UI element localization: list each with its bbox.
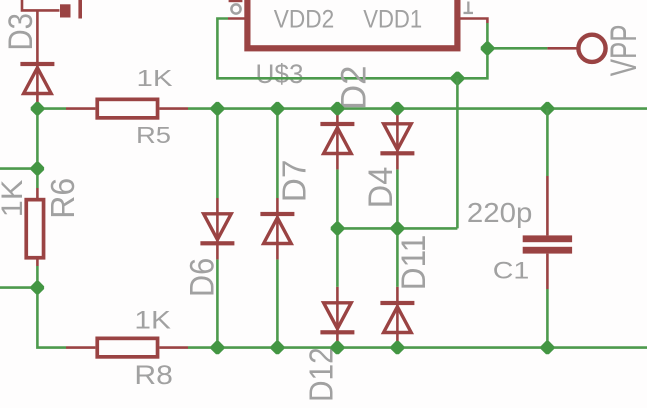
pin 8 red end cap (cut at top edge) [229,0,243,2]
svg-text:VDD2: VDD2 [274,6,335,34]
diode D4 (cathode down) [380,124,414,156]
resistor R5 right pin [159,107,188,110]
svg-text:D6: D6 [183,258,221,297]
wire riser x=457.4 [456,78,459,228]
svg-text:D11: D11 [395,235,433,291]
resistor R8 right pin [159,346,188,349]
junction D4/mid wire [391,222,404,235]
junction rail1/D4 [391,102,404,115]
diode D6 pin line [216,198,219,259]
svg-text:VPP: VPP [603,24,644,76]
junction rail2/D6 [211,341,224,354]
diode D4 pin line [396,109,399,170]
capacitor C1 plates [523,235,572,253]
wire pin8 net vertical+horizontal [217,19,457,79]
svg-text:1K: 1K [134,306,171,334]
diode D2 (cathode up) [320,122,354,154]
resistor R6 top pin [36,188,39,198]
svg-text:R6: R6 [44,178,81,219]
wire bottom rail y=347.6 [188,346,647,349]
diode D2 pin line [336,109,339,170]
wire mid horizontal y=228.4 [337,227,457,230]
junction rail1/D6 [211,102,224,115]
diode D11 pin line [396,287,399,348]
wire to left edge lower [0,286,37,289]
diode D7 pin line [276,198,279,259]
resistor R6 bottom pin [36,259,39,266]
wire D4 column middle [396,169,399,287]
wire VPP junction to VPP pin [487,47,547,50]
pin number 1 (gray) [464,2,474,15]
junction R6 bottom [31,281,44,294]
junction rail2/D12 [331,341,344,354]
junction rail1/D7 [271,102,284,115]
junction D3/rail [31,102,44,115]
svg-text:1K: 1K [137,65,174,91]
svg-text:R5: R5 [136,122,171,148]
diode D12 pin line [336,287,339,348]
resistor R6 body [26,200,43,258]
svg-text:VDD1: VDD1 [363,6,422,34]
resistor R8 body [97,338,157,357]
diode D11 (cathode up) [380,301,414,333]
wire main top rail y=108.6 [37,107,647,110]
junction at pin1/VPP [481,42,494,55]
svg-text:D3: D3 [2,13,40,51]
wire D6 column upper [216,109,219,198]
pin number 8 (gray, cut off at top) [231,4,240,13]
junction at riser/top wire [451,72,464,85]
diode D3 anode wire (red) [36,10,39,106]
junction rail2/D11 [391,341,404,354]
wire riser to pin1/VPP junction [457,23,487,78]
wire D2 column middle [336,169,339,287]
wire left column verticals [37,109,66,348]
svg-text:D12: D12 [302,347,339,402]
resistor R8 left pin [66,346,95,349]
wire D7 column upper [276,109,279,198]
wire D7 column lower [276,259,279,347]
svg-text:D4: D4 [362,167,400,209]
capacitor C1 bottom pin (red) [546,254,549,289]
svg-text:R8: R8 [134,360,173,390]
supply VPP circle [578,35,605,62]
pin 1 stub (red) [461,19,488,24]
wire D6 column lower [216,259,219,347]
svg-text:U$3: U$3 [256,59,304,89]
capacitor C1 top pin (red) [546,176,549,235]
svg-text:220p: 220p [467,197,533,228]
diode D6 (cathode down) [200,214,234,246]
junction rail1/D2 [331,102,344,115]
resistor R5 left pin [66,107,95,110]
IC U$3 box [247,0,457,48]
pin 8 stub (red) [228,17,245,20]
crystal/cap plate square (cut off at top edge) [60,4,71,17]
wire C1 column upper [546,109,549,176]
supply VPP pin (red) [547,47,578,50]
wire to left edge upper [0,167,37,170]
junction rail2/C1 [541,341,554,354]
svg-text:D7: D7 [276,160,313,203]
diode D7 (cathode up) [260,212,294,244]
junction R6 top [31,162,44,175]
svg-text:1K: 1K [0,180,29,218]
junction D2/mid wire [331,222,344,235]
diode D12 (cathode down) [320,303,354,335]
wire C1 column lower [546,289,549,348]
junction rail2/D7 [271,341,284,354]
svg-text:C1: C1 [493,258,530,285]
crystal/cap plate bar (cut off at top edge) [78,0,82,19]
diode D3 (cathode up) [20,62,54,94]
junction rail1/C1 [541,102,554,115]
resistor R5 body [97,99,157,118]
wire net top-left corner stub [22,0,60,10]
